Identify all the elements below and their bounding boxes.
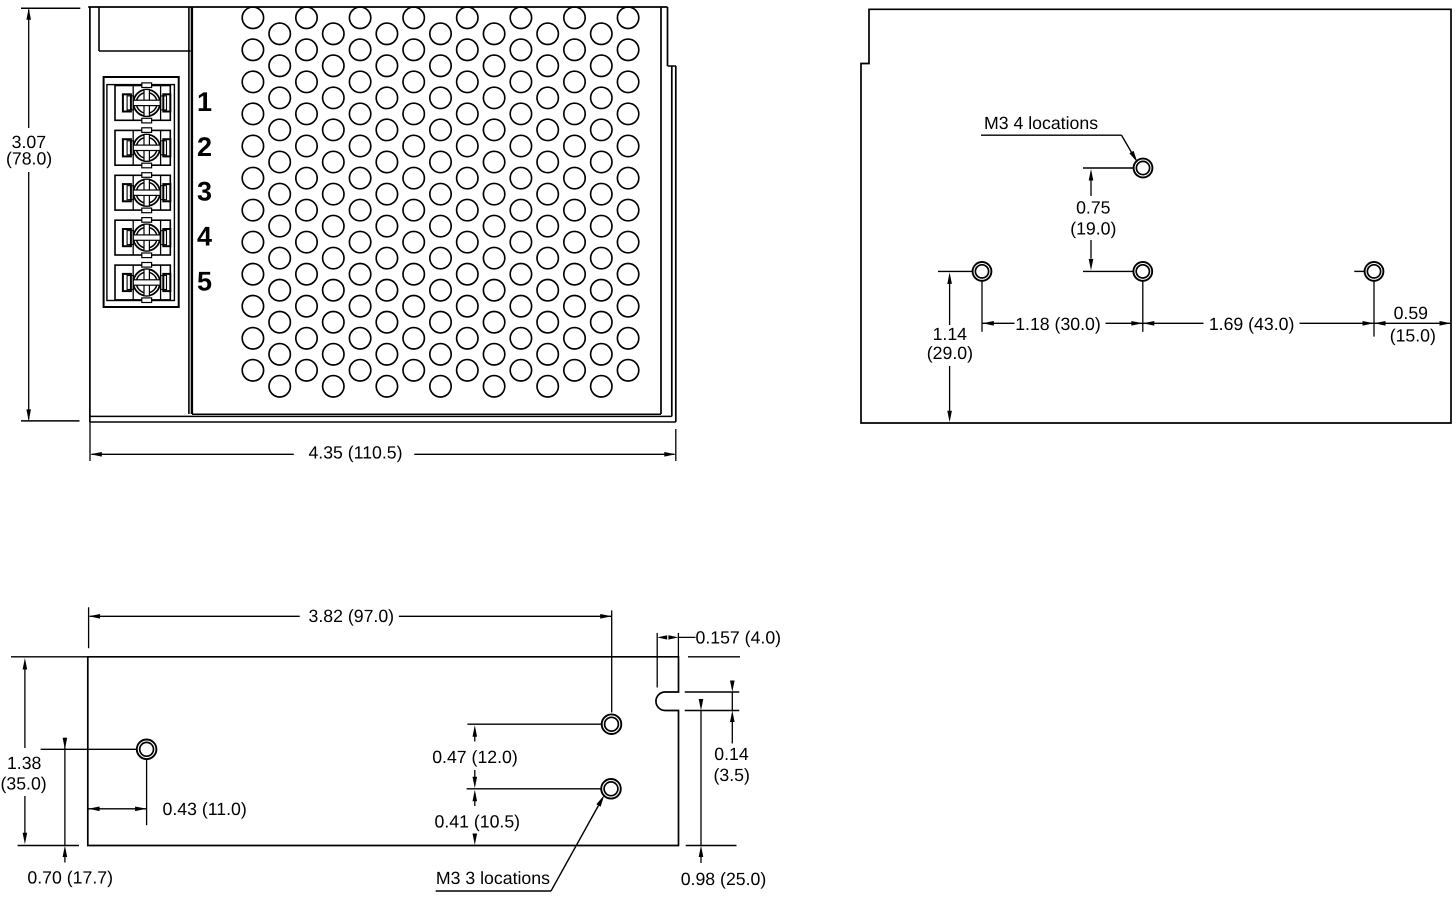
front view enclosure top edge <box>88 6 667 8</box>
front view right step <box>668 65 677 67</box>
terminal block inner box <box>107 85 174 301</box>
tick line at upper right side hole <box>467 723 601 725</box>
svg-text:(3.5): (3.5) <box>714 765 750 785</box>
left mounting hole M3 <box>973 262 992 281</box>
front view enclosure right top outer edge <box>667 7 669 66</box>
svg-text:0.43 (11.0): 0.43 (11.0) <box>163 799 247 819</box>
dimension 4.35 (110.5) line and arrows <box>89 422 91 461</box>
tick slot top extension <box>685 691 740 693</box>
tick slot bottom extension <box>685 710 740 712</box>
top mounting hole M3 <box>1134 159 1153 178</box>
dimension 1.18 (30.0) line and arrows <box>982 321 994 326</box>
svg-text:3.82 (97.0): 3.82 (97.0) <box>309 606 395 626</box>
svg-text:0.157 (4.0): 0.157 (4.0) <box>696 628 782 648</box>
svg-text:0.14: 0.14 <box>714 744 749 764</box>
front view enclosure outline left edge <box>89 7 91 422</box>
svg-text:0.98 (25.0): 0.98 (25.0) <box>681 869 767 889</box>
vent hole pattern <box>242 7 639 397</box>
dimension 0.59 (15.0) line and arrows <box>1374 321 1386 326</box>
dimension 3.07 (78.0) line and arrows <box>21 7 80 9</box>
svg-text:3: 3 <box>197 177 212 207</box>
dimension 0.41 (10.5) line and arrows <box>473 790 478 802</box>
extension line below left hole <box>981 281 983 332</box>
terminal cell 4 with screw <box>115 220 170 255</box>
front view separator thin line <box>188 7 190 414</box>
svg-text:5: 5 <box>197 267 212 297</box>
leader line M3 4 locations <box>981 134 1122 136</box>
tick line at right hole <box>1354 270 1364 272</box>
front view right flange inner line <box>671 66 673 416</box>
lower right mounting hole M3 side <box>601 779 621 799</box>
svg-text:1.14: 1.14 <box>933 324 968 344</box>
front view enclosure right inner edge <box>660 7 662 414</box>
tick bottom edge extension right <box>686 845 737 847</box>
tick line at center hole <box>1083 270 1133 272</box>
terminal cell 1 with screw <box>115 86 170 121</box>
extension line below center hole <box>1142 281 1144 332</box>
tick line at left hole <box>938 270 973 272</box>
upper right mounting hole M3 side <box>602 714 622 734</box>
svg-text:(78.0): (78.0) <box>6 149 52 169</box>
svg-text:0.41 (10.5): 0.41 (10.5) <box>435 812 521 832</box>
top-right view outline with notched corner <box>861 9 1451 423</box>
dimension 0.47 (12.0) line and arrows <box>473 725 478 737</box>
svg-text:M3 4 locations: M3 4 locations <box>984 113 1098 133</box>
tick line at lower right side hole <box>467 788 602 790</box>
front view bottom line upper <box>192 413 661 415</box>
dimension 0.75 (19.0) line and arrows <box>1089 169 1094 181</box>
front view top-left label plate bottom edge <box>99 50 191 52</box>
svg-text:(29.0): (29.0) <box>927 343 973 363</box>
svg-text:(15.0): (15.0) <box>1390 326 1436 346</box>
svg-text:(35.0): (35.0) <box>0 773 46 793</box>
terminal block outer box <box>104 77 179 307</box>
svg-text:4.35 (110.5): 4.35 (110.5) <box>308 442 402 462</box>
dimension 0.14 (3.5) line and arrows <box>730 681 735 693</box>
right mounting hole M3 <box>1365 262 1384 281</box>
front view separator thick line <box>191 7 193 414</box>
dimension 1.14 (29.0) line and arrows <box>947 272 952 284</box>
front view right flange outer line <box>675 66 677 422</box>
dimension 0.157 (4.0) line and arrows <box>656 633 658 688</box>
terminal cell 3 with screw <box>115 175 170 210</box>
tick top edge extension right <box>688 656 740 658</box>
leader line M3 3 locations <box>436 890 551 892</box>
dimension 1.69 (43.0) line and arrows <box>1143 321 1155 326</box>
svg-text:0.59: 0.59 <box>1394 303 1428 323</box>
dimension 0.43 (11.0) line and arrows <box>88 808 147 810</box>
svg-text:0.47 (12.0): 0.47 (12.0) <box>432 747 518 767</box>
terminal cell 2 with screw <box>115 130 170 165</box>
tick line at left side hole <box>41 748 137 750</box>
svg-text:1.69 (43.0): 1.69 (43.0) <box>1209 314 1295 334</box>
bottom view outline with slot <box>88 657 679 846</box>
svg-text:M3 3 locations: M3 3 locations <box>436 868 550 888</box>
extension line below right hole <box>1373 281 1375 337</box>
dimension 0.98 (25.0) line and arrows <box>699 699 704 711</box>
left mounting hole M3 side <box>137 740 157 760</box>
svg-text:0.75: 0.75 <box>1076 197 1111 217</box>
tick line at top hole <box>1083 167 1134 169</box>
dimension 3.82 (97.0) line and arrows <box>88 607 90 648</box>
svg-text:2: 2 <box>197 132 212 162</box>
dimension 0.70 (17.7) line and arrows <box>64 738 66 750</box>
dimension 1.38 (35.0) line and arrows <box>11 656 88 658</box>
svg-text:0.70 (17.7): 0.70 (17.7) <box>27 868 113 888</box>
terminal cell 5 with screw <box>115 265 170 300</box>
svg-text:(19.0): (19.0) <box>1070 218 1116 238</box>
front view bottom line lower <box>90 421 676 423</box>
svg-text:1: 1 <box>197 87 212 117</box>
svg-text:1.18 (30.0): 1.18 (30.0) <box>1015 314 1101 334</box>
svg-text:4: 4 <box>197 222 212 252</box>
center mounting hole M3 <box>1133 262 1152 281</box>
front view bottom line middle <box>90 415 672 417</box>
front view top-left label plate left edge <box>98 7 100 51</box>
svg-text:1.38: 1.38 <box>7 753 42 773</box>
